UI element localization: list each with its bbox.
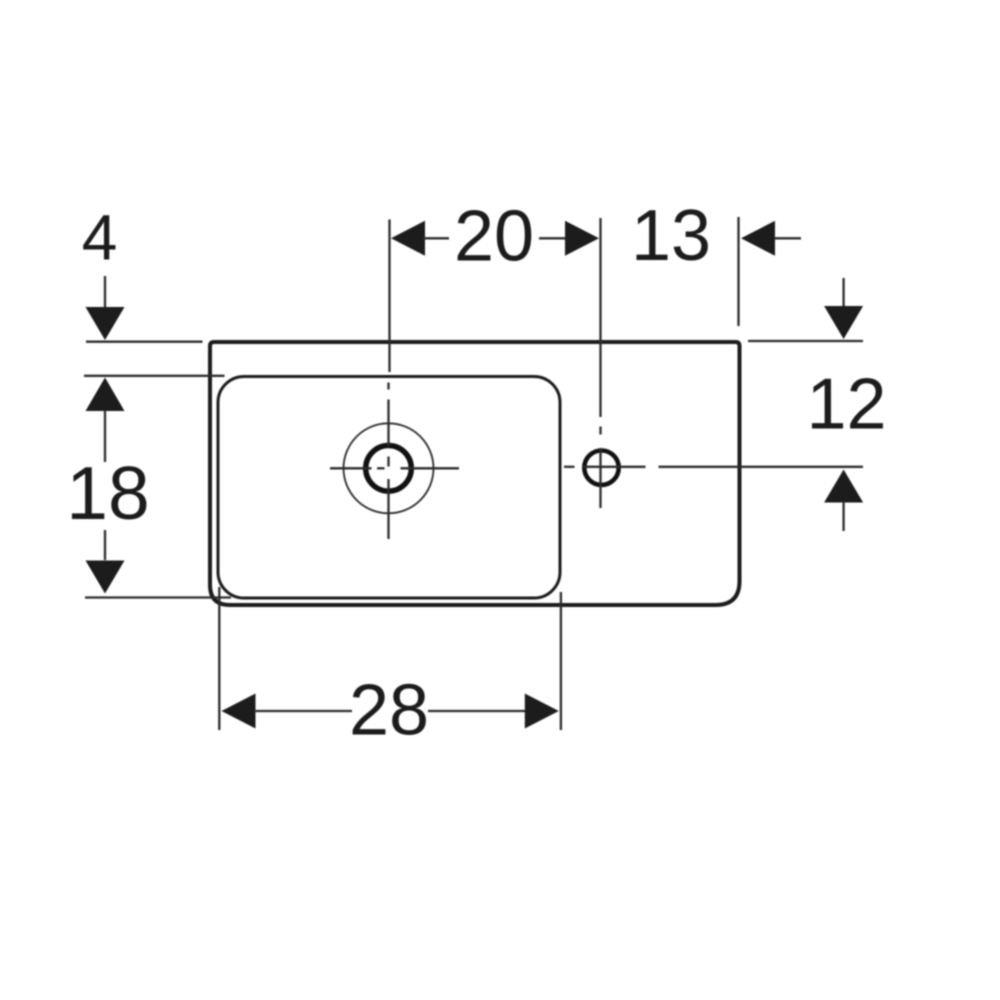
dim 13 arrowhead [741,221,775,256]
drain hole circle [366,446,412,492]
dim 13 right extension line (outer right edge) [737,217,739,326]
svg-text:13: 13 [631,196,711,276]
drain outer circle [344,423,434,513]
dim 20 left tail line [423,237,449,239]
svg-text:28: 28 [349,671,429,751]
dim 12 lower arrow tail line [842,502,844,532]
faucet hole circle [584,451,618,485]
dim 28 right extension line [560,592,562,730]
dim 18 up arrowhead [86,378,125,412]
drain vertical centerline [387,383,389,540]
svg-text:20: 20 [454,197,534,277]
basin outer outline (top view) [210,342,740,605]
dim 12 upper extension line (outer top edge level, right side) [748,340,863,342]
dim 28 left extension line [218,587,220,730]
svg-text:4: 4 [82,202,118,274]
dim 12 down arrowhead [824,306,863,339]
basin inner bowl outline [218,377,560,599]
faucet vertical centerline / dim 20 right extension line [599,218,601,508]
dim 20 left extension line (drain axis) [388,220,390,373]
svg-text:18: 18 [66,451,149,535]
dim 20 right arrowhead [565,221,599,256]
dim 4 upper extension line (outer top edge level) [86,341,203,343]
dim 12 up arrowhead [824,470,863,503]
dim 18 lower tail line [104,530,106,560]
dim 18 down arrowhead [86,561,125,594]
dim 12 upper arrow tail line [842,278,844,307]
dim 18 lower extension line (inner bowl bottom level) [85,596,231,598]
dim 13 tail line [774,237,801,239]
dim 28 left tail line [254,710,353,712]
dim 28 right arrowhead [525,694,559,729]
dim 28 left arrowhead [222,694,256,729]
dim 4 arrow tail line [104,276,106,308]
dim 28 right tail line [428,710,525,712]
faucet horizontal centerline / dim 12 lower extension line [564,466,863,468]
svg-text:12: 12 [806,365,886,445]
dim 18 upper tail line [104,410,106,462]
dim 20 left arrowhead [391,221,425,256]
drain horizontal centerline [330,467,459,469]
dim 4 down arrowhead [86,307,125,340]
dim 18 upper extension line (inner bowl top level) [84,375,225,377]
dim 20 right tail line [539,237,566,239]
